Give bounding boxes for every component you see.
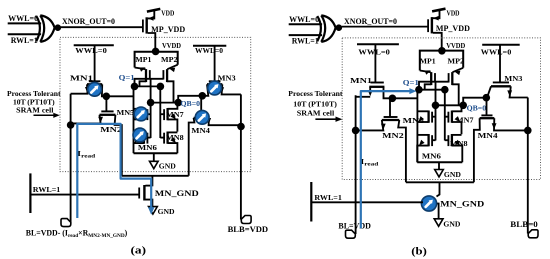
- xnor output bubble: [55, 24, 62, 31]
- node QB row: [151, 102, 179, 104]
- transistor MN6 gate bar: [146, 133, 148, 144]
- transistor MN8b gate bar: [447, 135, 449, 146]
- transistor MN2b gate lead: [389, 98, 391, 117]
- transistor MN1 channel: [87, 83, 102, 85]
- transistor MN4b gate lead: [486, 98, 488, 116]
- svg-text:MN7: MN7: [456, 115, 474, 124]
- degradation mark MN_GND (b): [421, 196, 436, 211]
- transistor MN3b source lead: [486, 86, 491, 97]
- arrow to cell (a): [34, 114, 56, 116]
- svg-text:BLB=VDD: BLB=VDD: [228, 225, 269, 234]
- highlight read current path (blue): [77, 124, 151, 218]
- transistor MP_VDD gate bar: [142, 20, 144, 33]
- node QB dot left: [147, 99, 155, 107]
- wire MP2 gate to node Q (b): [419, 82, 449, 90]
- transistor MN2b gate bar: [384, 116, 398, 118]
- wire cell GND rail: [134, 152, 178, 154]
- svg-text:WWL=0: WWL=0: [195, 46, 223, 55]
- transistor MN7 leads: [168, 103, 178, 109]
- transistor MN6b gate bar: [431, 135, 433, 146]
- node Q dot (b): [415, 86, 423, 94]
- transistor MN4b channel: [480, 117, 495, 119]
- svg-text:MN7: MN7: [166, 110, 184, 119]
- degradation mark MN5: [134, 107, 148, 121]
- node QB dot left (b): [432, 102, 440, 110]
- wire RWL input: [289, 34, 322, 36]
- transistor MN3 gate lead: [214, 46, 216, 82]
- wire BL column (b): [355, 95, 357, 234]
- svg-text:GND: GND: [444, 171, 461, 179]
- node MN1-MN2 dot (b): [389, 95, 397, 103]
- node QB row (b): [436, 104, 464, 106]
- transistor MN2 gate lead: [105, 96, 107, 111]
- svg-text:Process Tolerant: Process Tolerant: [288, 89, 343, 98]
- transistor MN3 source lead: [202, 84, 208, 96]
- port BL (b): [346, 230, 356, 238]
- transistor MN7 leads (b): [452, 105, 462, 111]
- wire RWL pin bar (b): [310, 182, 312, 222]
- svg-text:QB=0: QB=0: [467, 103, 487, 112]
- transistor MN6 leads: [134, 131, 144, 133]
- transistor MN5 gate bar: [146, 109, 148, 120]
- ground cell GND: [153, 153, 155, 161]
- transistor MN4 gate bar: [195, 114, 207, 116]
- transistor MN4 source lead: [189, 118, 195, 176]
- svg-text:MN3: MN3: [218, 73, 236, 82]
- svg-text:MN5: MN5: [117, 108, 135, 117]
- node Q dot right (b): [441, 86, 449, 94]
- svg-text:MP_VDD: MP_VDD: [436, 24, 470, 33]
- transistor MN2 channel: [100, 114, 116, 116]
- wire MN7 gate bus (b): [444, 90, 446, 141]
- wire MN1 drain row: [106, 95, 133, 97]
- highlight arrow at GND (blue): [148, 207, 154, 215]
- transistor MN3b drain lead: [510, 86, 528, 97]
- wire MP1 gate to node QB (b): [435, 83, 437, 106]
- node MN1-MN2 dot: [103, 93, 111, 101]
- wire WWL rail left (a): [74, 44, 114, 46]
- node Q row (b): [419, 89, 445, 91]
- transistor MN6 channel: [143, 132, 145, 144]
- wire QB to MN3 (b): [463, 98, 486, 106]
- svg-text:BLB=0: BLB=0: [510, 220, 538, 229]
- svg-text:RWL=1: RWL=1: [314, 193, 342, 202]
- circuit (b): [288, 9, 540, 258]
- svg-text:(b): (b): [411, 246, 427, 258]
- wire MN_GND drop (b): [437, 182, 440, 196]
- wire read path drop: [151, 176, 153, 187]
- transistor MP_VDD channel: [145, 17, 147, 33]
- svg-text:WWL=0: WWL=0: [8, 14, 38, 23]
- transistor MN2 drain lead: [115, 115, 122, 176]
- node Q row: [135, 85, 161, 87]
- node BL-MN2 dot: [67, 121, 75, 129]
- transistor MN8 channel: [166, 132, 168, 144]
- svg-text:RWL=1: RWL=1: [33, 185, 61, 194]
- transistor MN5 leads: [134, 108, 144, 110]
- transistor MN8 leads (b): [452, 134, 462, 136]
- wire Q chain down (b): [416, 91, 418, 163]
- transistor MN_GND (b): [422, 197, 439, 219]
- svg-text:MP1: MP1: [420, 57, 436, 66]
- svg-text:XNOR_OUT=0: XNOR_OUT=0: [62, 17, 115, 26]
- svg-text:MN8: MN8: [166, 133, 184, 142]
- wire MP1 gate to node QB: [150, 80, 152, 103]
- svg-text:MP2: MP2: [448, 57, 465, 66]
- wire VVDD rail: [135, 52, 178, 68]
- svg-text:10T (PT10T): 10T (PT10T): [293, 99, 337, 108]
- transistor MN2b source lead: [355, 120, 384, 130]
- wire QB to MN3: [178, 96, 202, 103]
- transistor MN3b channel: [491, 85, 511, 87]
- svg-text:Q=1: Q=1: [119, 73, 135, 82]
- transistor MN8b channel: [451, 134, 453, 146]
- svg-text:(a): (a): [131, 244, 147, 256]
- node VVDD dot (b): [438, 47, 446, 55]
- svg-text:MP1: MP1: [135, 55, 151, 64]
- transistor MN1 source lead: [71, 84, 88, 93]
- degradation mark MN1: [88, 82, 102, 96]
- wire MN7 gate bus: [159, 86, 161, 138]
- transistor MP_VDD source: [148, 11, 155, 19]
- svg-text:MN4: MN4: [191, 126, 210, 135]
- svg-text:XNOR_OUT=0: XNOR_OUT=0: [344, 17, 397, 26]
- transistor MP_VDD (b): [428, 9, 445, 51]
- transistor MN4b drain lead: [494, 118, 528, 130]
- transistor MN4b gate bar: [481, 114, 492, 116]
- node QB-MN3 dot (b): [483, 94, 491, 102]
- transistor MN1 (b): [356, 44, 389, 98]
- transistor MN7 channel: [166, 108, 168, 120]
- wire MP2 gate to node Q: [135, 79, 164, 87]
- svg-text:MN6: MN6: [138, 143, 157, 152]
- dashed box PT10T cell (b): [342, 38, 540, 180]
- wire WWL rail right (a): [193, 45, 226, 47]
- transistor MN6b channel: [427, 134, 429, 146]
- wire VVDD rail (b): [420, 51, 463, 71]
- svg-text:MN6: MN6: [422, 151, 441, 160]
- svg-text:MN1: MN1: [70, 73, 93, 82]
- degradation mark MN4: [195, 110, 209, 124]
- svg-text:VVDD: VVDD: [162, 42, 181, 50]
- wire Q chain down: [133, 87, 135, 153]
- transistor MN4 gate lead: [200, 96, 202, 115]
- transistor MN5b channel: [427, 111, 429, 123]
- transistor MN5 leads (b): [417, 110, 428, 112]
- wire WWL rail right (b): [482, 44, 520, 46]
- svg-text:SRAM cell: SRAM cell: [16, 106, 53, 115]
- svg-text:WWL=0: WWL=0: [481, 47, 512, 56]
- svg-text:MP_VDD: MP_VDD: [151, 25, 185, 34]
- transistor MN3b gate bar: [493, 81, 509, 83]
- wire WWL input: [8, 22, 41, 24]
- wire RWL (b): [311, 201, 423, 203]
- transistor MN5 channel: [143, 108, 145, 120]
- transistor MN3 channel: [207, 83, 222, 85]
- node QB-MN3 dot: [199, 92, 207, 100]
- svg-text:MP2: MP2: [161, 55, 178, 64]
- wire BLB column: [240, 94, 242, 219]
- ground below MN_GND (b): [434, 219, 443, 227]
- ground below MN_GND: [149, 207, 158, 215]
- transistor MN7 gate bar: [163, 109, 165, 120]
- svg-text:MN2: MN2: [382, 131, 404, 140]
- svg-text:GND: GND: [159, 163, 176, 171]
- svg-text:RWL=1: RWL=1: [292, 37, 319, 46]
- transistor MP1: [135, 65, 150, 86]
- wire MN5 gate bus: [150, 103, 152, 138]
- transistor MN4 drain lead: [209, 118, 241, 125]
- dashed box PT10T cell (a): [60, 37, 251, 171]
- transistor MP2: [163, 65, 177, 103]
- wire MN5 gate bus (b): [435, 105, 437, 140]
- svg-text:QB=0: QB=0: [181, 99, 201, 108]
- transistor MN4b source lead: [474, 118, 480, 182]
- svg-text:GND: GND: [443, 220, 460, 228]
- transistor MN3 drain lead: [222, 84, 241, 94]
- node Q dot: [131, 83, 139, 91]
- transistor MN8 gate bar: [163, 133, 165, 144]
- transistor MN2 gate bar: [101, 110, 113, 112]
- transistor MN1 gate bar: [89, 80, 101, 82]
- node VVDD dot: [152, 48, 160, 56]
- node Q dot right: [157, 83, 165, 91]
- svg-text:MN1: MN1: [350, 76, 372, 85]
- degradation mark MN3: [208, 81, 222, 95]
- svg-text:RWL=1: RWL=1: [11, 36, 38, 45]
- node BLB-MN4 dot (b): [524, 127, 532, 135]
- svg-text:GND: GND: [158, 208, 175, 216]
- transistor MN3 gate bar: [209, 80, 221, 82]
- transistor MN5b gate bar: [431, 112, 433, 123]
- svg-text:MN4: MN4: [478, 131, 498, 140]
- wire read path bottom: [122, 175, 189, 177]
- node QB dot (b): [459, 102, 467, 110]
- wire RWL input: [8, 33, 41, 35]
- svg-text:VVDD: VVDD: [446, 42, 465, 50]
- transistor MN8 leads: [168, 131, 178, 133]
- svg-text:MN5: MN5: [403, 116, 425, 125]
- xnor gate U1: [317, 15, 335, 42]
- svg-text:MN3: MN3: [504, 74, 522, 83]
- port BL: [61, 219, 71, 227]
- transistor MP2 (b): [449, 68, 464, 106]
- xnor gate U1: [36, 15, 54, 42]
- svg-text:VDD: VDD: [161, 10, 174, 18]
- wire MN1 drain row (b): [392, 97, 417, 99]
- wire RWL pin bar: [29, 173, 31, 213]
- svg-text:MN_GND: MN_GND: [155, 189, 199, 198]
- wire XNOR_OUT to MP_VDD gate: [61, 26, 143, 28]
- node BLB-MN4 dot: [237, 123, 245, 131]
- node QB dot: [174, 99, 182, 107]
- transistor MN1 gate lead: [94, 45, 96, 81]
- svg-text:MN_GND: MN_GND: [440, 200, 484, 209]
- svg-text:MN8: MN8: [450, 139, 468, 148]
- degradation mark MN6: [133, 128, 147, 142]
- svg-text:BL=VDD: BL=VDD: [338, 221, 371, 230]
- wire WWL rail left (b): [357, 43, 399, 45]
- highlight arrow at Q (blue) (b): [409, 88, 416, 94]
- arrow to cell (b): [315, 118, 337, 120]
- wire read rail (b): [406, 181, 474, 183]
- port BLB: [241, 216, 251, 224]
- svg-text:Q=1: Q=1: [403, 78, 419, 87]
- transistor MP1 (b): [420, 68, 435, 89]
- transistor MP_VDD drain: [148, 33, 156, 51]
- transistor MN7b gate bar: [447, 112, 449, 123]
- svg-text:SRAM cell: SRAM cell: [297, 108, 335, 117]
- circuit (a): [7, 9, 268, 256]
- transistor MN2 source lead: [71, 115, 101, 124]
- transistor MN1 drain lead: [102, 84, 106, 96]
- power VDD bar: [147, 9, 160, 12]
- ground cell GND (b): [438, 162, 440, 169]
- wire WWL input: [289, 23, 322, 25]
- svg-text:WWL=0: WWL=0: [289, 15, 319, 24]
- transistor MN_GND: [139, 185, 152, 207]
- svg-text:VDD: VDD: [447, 9, 460, 17]
- wire BLB column (b): [527, 98, 529, 234]
- wire XNOR_OUT to MP_VDD gate (b): [342, 26, 429, 28]
- port BLB (b): [528, 230, 538, 238]
- transistor MN4 channel: [194, 117, 209, 119]
- wire cell GND rail (b): [417, 161, 462, 163]
- svg-text:WWL=0: WWL=0: [358, 48, 390, 57]
- node BL-MN2 dot (b): [352, 127, 360, 135]
- xnor output bubble: [336, 24, 343, 31]
- transistor MN2b drain lead: [398, 120, 406, 182]
- transistor MN7b channel: [451, 111, 453, 123]
- wire BL column: [70, 94, 72, 223]
- transistor MN2b channel: [382, 119, 400, 121]
- highlight write path (blue) (b): [361, 91, 410, 228]
- transistor MN6 leads (b): [417, 134, 428, 136]
- wire RWL: [30, 194, 139, 196]
- svg-text:MN2: MN2: [100, 125, 122, 134]
- svg-text:WWL=0: WWL=0: [75, 46, 107, 55]
- transistor MN3b gate lead: [499, 45, 501, 83]
